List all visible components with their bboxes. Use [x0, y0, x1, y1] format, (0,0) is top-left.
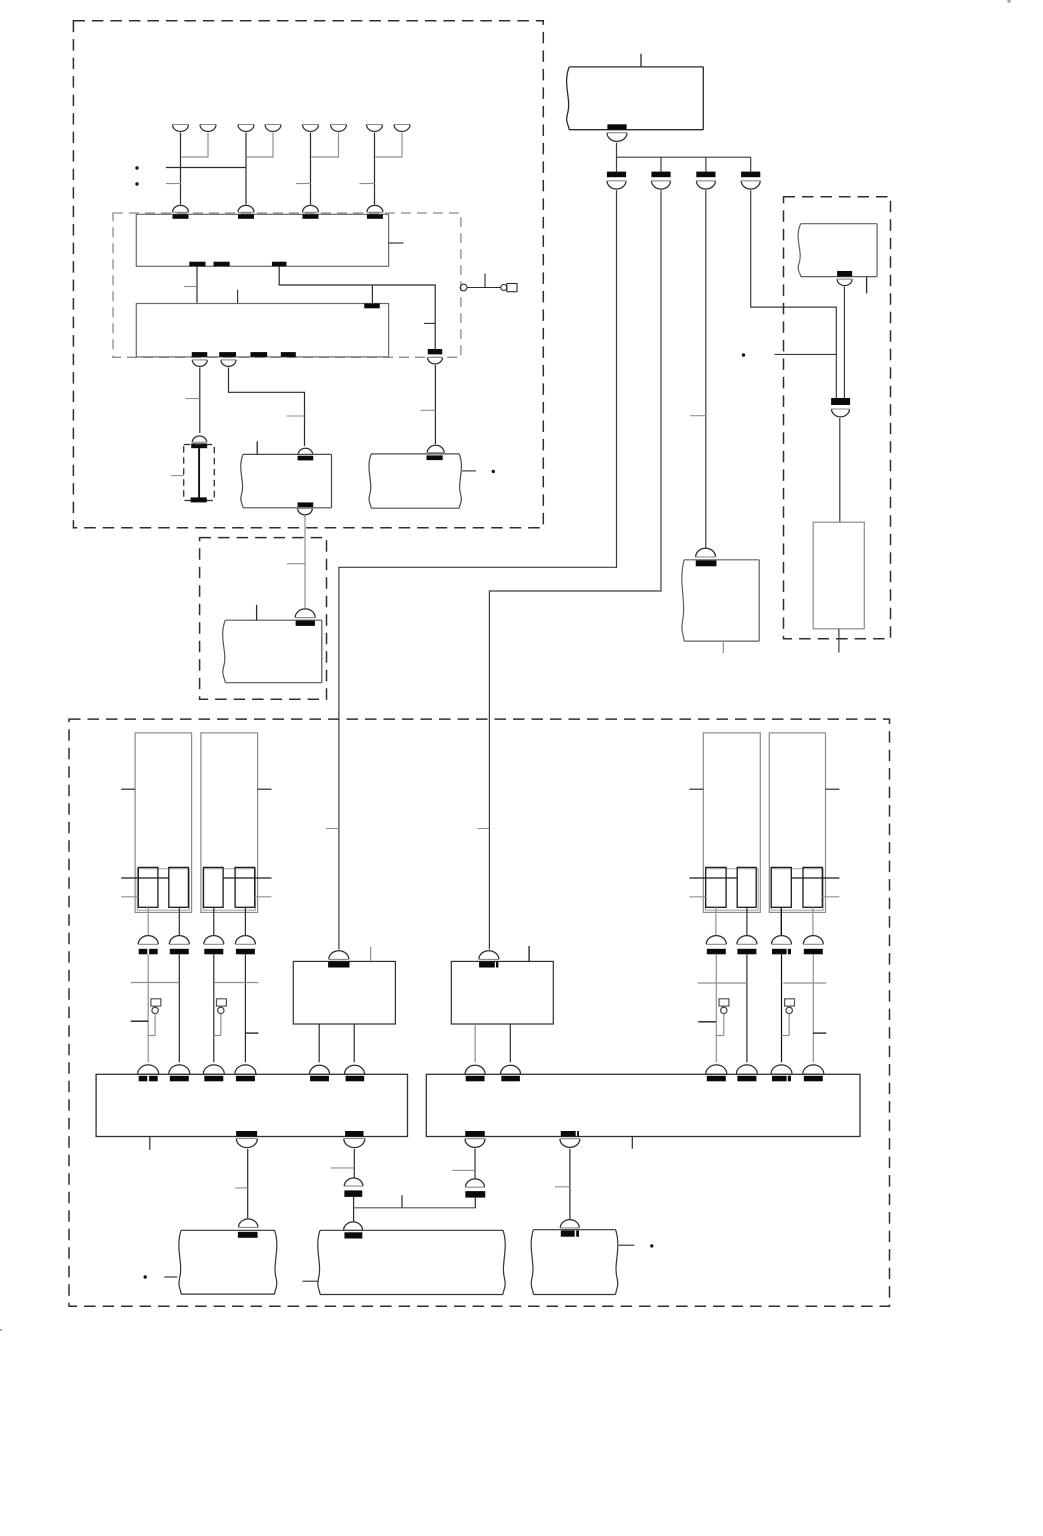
connector C1-1 on U1 top [173, 205, 189, 218]
component box T2b (off-page, torn edges) [318, 1230, 505, 1294]
connector C5 out of T0 [607, 124, 627, 141]
wire U1 pin7 to connector C2 (routed right) [279, 266, 435, 349]
stub left of T2b [303, 1280, 318, 1282]
connector CC4 into box C [736, 1065, 757, 1081]
branch connector C6-4 [741, 172, 760, 189]
wire from socket P6 (gray, jog left) [312, 133, 339, 158]
SP2 inner socket outline [203, 869, 255, 911]
branch connector C6-3 [696, 172, 715, 189]
stub left of SP1 [121, 788, 135, 790]
socket connector P1 (cup) [173, 125, 189, 132]
tick on T0 top [640, 54, 642, 67]
fuse F1 bottom bar [191, 497, 207, 502]
stub on W1 [326, 828, 339, 830]
component box T0 (main unit, torn edge) [567, 67, 704, 130]
inline connector CR1 [706, 936, 726, 955]
branch connector C6-2 [651, 172, 670, 189]
wire T5 down to C7 [843, 287, 845, 398]
connector bar C2-4 (U2 bottom) [281, 352, 296, 357]
gray link wire right-a [698, 982, 747, 984]
wire B2 out 1 [474, 1024, 476, 1062]
gray wire from s8 [822, 896, 839, 898]
switch SW4 on wire 7 [781, 999, 794, 1036]
SP4 inner socket outline [772, 869, 824, 911]
bus wire across sockets [166, 167, 246, 169]
wire from socket P7 to relay box [374, 133, 376, 205]
bus wire through s4 [223, 877, 271, 879]
wire s2 down [178, 907, 180, 936]
plug s6 [737, 867, 756, 907]
connector B1-A into box A [310, 1065, 330, 1081]
connector into T6 [696, 548, 717, 566]
wire B1 out 2 [353, 1024, 355, 1062]
connector C4 male (under U2) [221, 360, 236, 367]
plug s3 [204, 867, 224, 907]
splice dot f [650, 1244, 653, 1247]
speaker box SP4 [769, 733, 825, 913]
connector into B2 top [479, 951, 499, 968]
connector C-out-2 [560, 1131, 580, 1147]
socket connector P3 (cup) [238, 125, 254, 132]
junction box U2 [136, 304, 388, 357]
connector C-out-1 [465, 1131, 485, 1147]
stub on C-out-2 wire [555, 1186, 570, 1188]
inline connector CL3 [204, 936, 224, 955]
stub on C3 wire [185, 398, 200, 400]
plug s1 [138, 867, 158, 907]
SP1 inner socket outline [137, 869, 189, 911]
inline connector CM1 [344, 1178, 363, 1197]
wire from socket P4 (gray, jog left) [247, 133, 273, 158]
page mark top right [1008, 0, 1011, 3]
wire CM1 down [353, 1197, 355, 1222]
component box T3 (off-page, torn edges) [369, 454, 461, 508]
wire A-out-1 down [247, 1149, 249, 1218]
wire B2 out 2 [509, 1024, 511, 1062]
component box T6 (off-page, torn edge) [682, 560, 759, 641]
connector B2-B into box C [501, 1065, 521, 1081]
stub wire at socket column 3 [296, 183, 311, 185]
inline connector CL1 [138, 936, 158, 955]
socket connector P5 (cup) [303, 125, 319, 132]
socket connector P6 (cup) [331, 125, 347, 132]
socket connector P8 (cup) [394, 125, 410, 132]
stub below box C [631, 1137, 633, 1149]
wire C2 down [434, 365, 436, 444]
wire W4 (C6-4 to right block) [751, 190, 837, 398]
stub on A-out-2 wire [331, 1167, 355, 1169]
bus wire through s1 [121, 877, 169, 879]
connector bar C1-7 (U1 bottom) [272, 262, 287, 267]
stub on C4 wire [287, 415, 305, 417]
speaker box SP2 [201, 733, 258, 913]
wire W1 (C6-1 to B1) [339, 190, 617, 949]
connector CC3 into box C [706, 1065, 727, 1081]
wire s8 down [812, 907, 814, 936]
switch SW2 on wire 3 [214, 999, 227, 1036]
stub at SW1 [131, 1020, 148, 1022]
bus wire through s8 [791, 877, 839, 879]
connector into T2b [344, 1222, 363, 1239]
connector out of T2 bottom [298, 502, 314, 514]
wire C-out-2 down [569, 1149, 571, 1220]
wire C4 to component T2 [229, 367, 305, 446]
connector into component T3 [427, 445, 445, 460]
switch SW1 on wire 1 [148, 999, 161, 1036]
wire s3 down [213, 907, 215, 936]
component box T5 (off-page, torn edge) [798, 224, 877, 277]
stub on U1 right side [389, 242, 404, 244]
switch SW3 on wire 5 [716, 999, 729, 1036]
stub on C2 wire [421, 409, 436, 411]
connector CA2 into box A [169, 1065, 190, 1081]
wire U1 pin5 to U2 top [196, 266, 198, 303]
wire below resistor R [838, 629, 840, 653]
stub on C2 drop wire [424, 322, 435, 324]
connector C7 [831, 398, 850, 417]
stub right of SP4 [826, 788, 840, 790]
speaker box SP3 [703, 733, 760, 913]
gray link wire left-b [214, 982, 258, 984]
stub right of T3 [462, 470, 476, 472]
wire from socket P3 to relay box [245, 133, 247, 205]
bus wire through s5 [689, 877, 737, 879]
inline connector CM2 [465, 1179, 485, 1198]
stub right of SP2 [258, 788, 272, 790]
inline connector CL4 [235, 936, 255, 955]
stub on W3 [690, 415, 706, 417]
connector bar C2-1 (U2 bottom) [192, 352, 208, 357]
wire s4 down [244, 907, 246, 936]
connector bar C2-3 (U2 bottom) [250, 352, 267, 357]
splice dot d [742, 353, 745, 356]
tick on T4 top [256, 605, 258, 620]
amplifier box B2 [451, 961, 553, 1024]
wire below CR2 [746, 954, 748, 1062]
connector CA4 into box A [235, 1065, 256, 1081]
tick on B1 top [370, 947, 372, 962]
stub wire at socket column 4 [360, 183, 376, 185]
wire below CL1 [147, 954, 149, 1062]
fuse F1 element [198, 448, 200, 498]
dashed enclosure: speaker/amp harness (bottom) [69, 719, 890, 1306]
wire below CL3 [213, 954, 215, 1062]
connector C1-2 on U1 top [238, 205, 254, 218]
connector into T3b [560, 1220, 579, 1237]
gray link wire left-a [131, 982, 180, 984]
stub below box A [149, 1137, 151, 1150]
connector into fuse F1 [191, 436, 207, 448]
wire below CL4 [244, 954, 246, 1062]
stub wire at socket column 1 [166, 183, 181, 185]
wire s6 down [746, 907, 748, 936]
socket connector P2 (cup) [200, 125, 216, 132]
tick on T2 top [256, 441, 258, 454]
socket connector P7 (cup) [367, 125, 383, 132]
plug s8 [803, 867, 822, 907]
connector CA3 into box A [203, 1065, 224, 1081]
gray link wire right-b [783, 982, 826, 984]
wire C-out-1 down [474, 1149, 476, 1180]
dashed enclosure: relay/junction sub-block [113, 213, 461, 357]
stub at SW3 [698, 1021, 716, 1023]
splice dot c [492, 470, 495, 473]
wire A-out-2 down [353, 1149, 355, 1178]
tick on link wire [401, 1195, 403, 1208]
connector CC6 into box C [803, 1065, 824, 1081]
component box T4 (off-page, torn edge) [223, 620, 322, 683]
connector C2 (to lower harness) [428, 349, 443, 364]
wire from socket P1 to relay box [180, 133, 182, 205]
wire CM2 to link [474, 1198, 476, 1208]
wire W2 (C6-2 to B2) [489, 190, 661, 949]
wire s7 down [780, 907, 782, 936]
plug s7 [771, 867, 791, 907]
connector B2-A into box C [465, 1065, 485, 1081]
splice dot a [135, 166, 138, 169]
stub right of wire 8 [813, 1032, 826, 1034]
connector B1-B into box A [345, 1065, 365, 1081]
gray wire to s1 [121, 896, 138, 898]
amplifier box B1 [293, 961, 395, 1024]
plug s4 [235, 867, 255, 907]
splice dot e [144, 1275, 147, 1278]
plug s2 [169, 867, 189, 907]
test probe symbol [460, 274, 517, 292]
gray wire from s4 [255, 896, 272, 898]
splice dot b [135, 182, 138, 185]
speaker box SP1 [135, 733, 192, 913]
connector C3 male (under U2) [192, 360, 207, 367]
fuse F1 (dashed outline) [184, 445, 215, 501]
stub right of wire 4 [245, 1032, 258, 1034]
wire below CR1 [715, 954, 717, 1062]
connector CC5 into box C [771, 1065, 792, 1081]
wire below CR3 [781, 954, 783, 1062]
dashed enclosure: sensor block (right) [784, 197, 891, 639]
plug s5 [706, 867, 726, 907]
branch wire to U2 top-right pin [371, 285, 373, 304]
stub on wire at U2 [184, 286, 197, 288]
tick right of T5 [866, 277, 868, 294]
wire from socket P5 to relay box [310, 133, 312, 205]
distribution wire from C5 [617, 143, 751, 172]
connector into T4 [295, 609, 315, 626]
connector bar C1-5 (U1 bottom) [189, 262, 205, 267]
stub with dot on W4 [775, 353, 837, 355]
wire C3 down [199, 367, 201, 433]
dashed enclosure: main harness block (top left) [73, 21, 543, 528]
stub above U2 [237, 290, 239, 304]
wire below CL2 [178, 954, 180, 1062]
connector into B1 top [328, 951, 349, 968]
dashed enclosure: component T4 block [200, 538, 327, 700]
resistor block R (tall rect) [813, 522, 864, 629]
stub on T2-T4 wire [287, 563, 305, 565]
component box T2 (off-page, torn edge) [241, 454, 332, 507]
connector bar C1-6 (U1 bottom) [214, 262, 230, 267]
connector CA1 into box A [138, 1065, 159, 1081]
connector C1-4 on U1 top [367, 205, 383, 218]
inline connector CR2 [737, 936, 757, 955]
socket connector P4 (cup) [265, 125, 281, 132]
stub on A-out-1 wire [235, 1187, 248, 1189]
branch connector C6-1 [607, 172, 626, 189]
component box T3b (off-page, torn edges) [531, 1230, 618, 1295]
wire below CR4 [812, 954, 814, 1062]
page mark left edge [0, 1329, 2, 1331]
inline connector CL2 [169, 936, 189, 955]
wire below T6 [722, 641, 724, 653]
stub left of SP3 [689, 788, 703, 790]
connector A-out-1 [236, 1131, 257, 1148]
stub on C-out-1 wire [452, 1169, 475, 1171]
connector into T1 [238, 1219, 258, 1238]
wire from socket P8 (gray, jog left) [376, 133, 403, 158]
wire from socket P2 (gray, jog left) [182, 133, 209, 158]
connector into component T2 [298, 448, 314, 460]
wire C7 to resistor R [839, 418, 841, 522]
wire W3 (C6-3 to T6) [705, 190, 707, 548]
control box C [426, 1074, 860, 1136]
junction box U1 [136, 214, 388, 266]
control box A [96, 1074, 407, 1136]
gray wire to s5 [689, 896, 705, 898]
SP3 inner socket outline [706, 869, 759, 911]
wire s5 down [715, 907, 717, 936]
component box T1 (off-page, torn edges) [179, 1230, 277, 1294]
stub left of T1 [164, 1276, 177, 1278]
wire s1 down [147, 907, 149, 936]
connector bar on U2 top right [364, 304, 380, 309]
tick on B2 top [528, 946, 530, 961]
link wire between branches [354, 1207, 476, 1209]
inline connector CR4 [803, 936, 823, 955]
connector C1-3 on U1 top [303, 205, 319, 218]
wire B1 out 1 [318, 1024, 320, 1062]
connector A-out-2 [344, 1131, 365, 1148]
connector bar C2-2 (U2 bottom) [219, 352, 236, 357]
stub on W2 [478, 828, 490, 830]
inline connector CR3 [772, 936, 792, 955]
connector out of T5 [837, 271, 852, 286]
wire T2 to T4 [304, 516, 306, 608]
stub at fuse F1 [171, 475, 184, 477]
stub right of T3b [619, 1244, 635, 1246]
